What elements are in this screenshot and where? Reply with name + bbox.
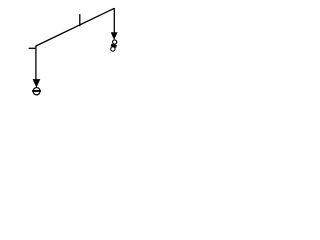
branch stub at left elbow bbox=[29, 47, 37, 49]
right drop pipe bbox=[113, 8, 115, 33]
left flow arrowhead bbox=[33, 79, 41, 88]
fitting tick on main pipe bbox=[79, 14, 81, 26]
right sprinkler head bottom circle bbox=[111, 47, 115, 51]
left sprinkler head bar bbox=[32, 90, 41, 92]
main pipe (isometric diagonal run) bbox=[36, 8, 114, 46]
right sprinkler head bar (tilted) bbox=[111, 44, 117, 48]
left drop pipe bbox=[35, 46, 37, 80]
right sprinkler head top circle bbox=[113, 40, 117, 44]
right flow arrowhead bbox=[111, 32, 118, 40]
left sprinkler head body (circle) bbox=[33, 88, 40, 95]
